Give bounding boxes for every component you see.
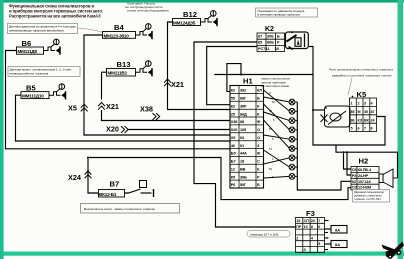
junction dot node A xyxy=(240,74,242,76)
svg-text:(провода 107 и 118): (провода 107 и 118) xyxy=(250,232,278,236)
svg-text:ВВ: ВВ xyxy=(240,166,246,171)
switch B7 terminal bar xyxy=(153,189,155,197)
connector X5 xyxy=(81,104,88,111)
F3 pin stub 1 xyxy=(325,220,329,222)
wire drop to H2 row 2 xyxy=(347,152,351,175)
buzzer H2 horn symbol xyxy=(379,169,398,188)
svg-text:Б: Б xyxy=(257,182,260,187)
connector X21 left xyxy=(98,103,105,110)
lamp output stubs xyxy=(295,102,298,176)
svg-text:30Р: 30Р xyxy=(240,103,247,108)
svg-text:ММ124Д35: ММ124Д35 xyxy=(173,20,196,25)
buzzer H2 pin table xyxy=(351,167,379,191)
lamp HL2 xyxy=(289,108,295,114)
svg-text:8: 8 xyxy=(371,127,373,131)
svg-text:30Б: 30Б xyxy=(240,174,247,179)
svg-text:4: 4 xyxy=(311,237,313,241)
wire node A to relay K5 vertical xyxy=(214,74,313,76)
svg-text:С: С xyxy=(257,159,260,164)
sensor B5 body xyxy=(21,92,49,99)
connector X21 right xyxy=(164,79,171,86)
fuse FU1 8A xyxy=(331,226,347,234)
svg-text:6: 6 xyxy=(358,127,360,131)
svg-text:ММ111В2: ММ111В2 xyxy=(108,71,128,76)
svg-text:50Г: 50Г xyxy=(240,182,247,187)
svg-text:О: О xyxy=(257,135,260,140)
wire K5 loop to buzzer feed xyxy=(336,145,398,178)
svg-text:H2: H2 xyxy=(359,157,369,166)
svg-text:ВК: ВК xyxy=(364,118,370,122)
note box: circuit 1-2-3 sensors xyxy=(8,67,80,77)
svg-text:Ж: Ж xyxy=(256,151,261,156)
svg-text:X20: X20 xyxy=(106,124,119,133)
rounded wire tag label xyxy=(247,231,290,238)
svg-text:392: 392 xyxy=(240,88,247,93)
svg-text:Выключатель контр. лампы стоян: Выключатель контр. лампы стояночного тор… xyxy=(84,207,155,211)
wire fan H1 to lamps xyxy=(264,90,290,178)
svg-text:3: 3 xyxy=(364,102,366,106)
lamp HL5 xyxy=(289,136,295,142)
svg-text:30: 30 xyxy=(364,110,368,114)
wire K2 pin 85 to fuse F3 xyxy=(194,42,296,227)
scissors crop mark xyxy=(382,242,404,259)
relay K5 pin grid xyxy=(350,98,377,132)
svg-text:схемы электрооборудования: схемы электрооборудования xyxy=(127,9,169,13)
lamp HL3 xyxy=(289,118,295,124)
svg-text:B12: B12 xyxy=(183,10,197,19)
svg-text:Б: Б xyxy=(257,96,260,101)
note box: buzzer type xyxy=(353,190,390,203)
svg-text:3: 3 xyxy=(304,248,306,252)
wire B12 through X21 to H1 row 4 xyxy=(168,22,231,110)
svg-text:66Д: 66Д xyxy=(240,111,247,116)
wire stub through X24 down to B7 xyxy=(88,158,99,194)
svg-text:СП: СП xyxy=(304,219,310,223)
lamp HL1 xyxy=(289,99,295,105)
svg-text:Х20: Х20 xyxy=(231,127,237,132)
wire F3 to fuse FU1 xyxy=(325,228,332,230)
connector X20 xyxy=(121,126,128,133)
wire jog node A to H1 row 1 xyxy=(227,64,241,92)
sensor B12 body xyxy=(173,19,201,26)
svg-text:О: О xyxy=(257,127,260,132)
svg-text:X21: X21 xyxy=(171,80,184,89)
sensor B6 contact symbol xyxy=(44,39,61,55)
sensor B4 body xyxy=(103,32,136,39)
wire stub into K5 switch box xyxy=(313,109,325,111)
wire X21 to H1 row 5 xyxy=(102,110,231,121)
leader line to K5 xyxy=(348,78,352,95)
svg-text:86: 86 xyxy=(351,118,355,122)
svg-text:B4: B4 xyxy=(114,23,124,32)
svg-text:X5: X5 xyxy=(68,104,77,113)
svg-text:Реле сигнализаторов стояночног: Реле сигнализаторов стояночного тормоза … xyxy=(329,68,393,72)
leader line from note box xyxy=(78,28,103,33)
svg-text:105: 105 xyxy=(240,127,247,132)
lamp HL4 xyxy=(289,127,295,133)
switch B7 output wire xyxy=(141,192,152,194)
wire K2 pin 86 to H1 row 3 xyxy=(207,47,257,105)
svg-text:РС731: РС731 xyxy=(258,47,270,51)
svg-text:ММ111Д10: ММ111Д10 xyxy=(22,94,44,99)
svg-text:1: 1 xyxy=(351,102,353,106)
wire B13 down to connector X21 xyxy=(102,72,107,99)
lamp HL8 xyxy=(289,164,295,170)
page border frame top xyxy=(0,0,404,3)
sensor B6 body xyxy=(17,47,44,54)
page border frame bottom xyxy=(0,252,404,256)
svg-text:2: 2 xyxy=(296,237,298,241)
svg-text:М: М xyxy=(358,110,361,114)
svg-text:10: 10 xyxy=(275,47,279,51)
svg-text:8А: 8А xyxy=(335,242,340,247)
cluster H1 pin table xyxy=(230,86,264,189)
svg-text:B7: B7 xyxy=(110,180,120,189)
switch B7 contact lever xyxy=(125,189,141,193)
svg-text:H1: H1 xyxy=(243,77,253,86)
svg-text:K2: K2 xyxy=(265,26,274,33)
relay K5 switch symbol xyxy=(321,106,351,127)
page border frame right xyxy=(398,0,404,259)
svg-text:44А: 44А xyxy=(240,151,247,156)
svg-text:24-НР: 24-НР xyxy=(358,174,369,178)
svg-text:15: 15 xyxy=(296,219,300,223)
fuse FU2 8A xyxy=(331,241,347,248)
svg-text:92: 92 xyxy=(352,180,356,184)
svg-text:5: 5 xyxy=(318,242,320,246)
title text block xyxy=(9,4,103,19)
switch B7 body xyxy=(99,190,125,198)
junction dot on K5 vertical xyxy=(312,109,314,111)
svg-text:2: 2 xyxy=(358,102,360,106)
svg-text:Распространяется на все автомо: Распространяется на все автомобили КамАЗ xyxy=(9,14,101,19)
junction dot H2 feed 2 xyxy=(346,151,348,153)
fuse block F3 grid xyxy=(296,218,325,253)
wire code labels on fan xyxy=(269,91,275,179)
relay K2 switch symbol xyxy=(286,31,309,49)
svg-text:X38: X38 xyxy=(140,105,153,114)
relay K2 pin grid xyxy=(257,33,285,52)
svg-text:пр: пр xyxy=(326,236,330,240)
svg-text:85: 85 xyxy=(258,41,262,45)
svg-text:в контурах привода тормозов: в контурах привода тормозов xyxy=(258,13,301,17)
note box: pressure indication xyxy=(256,8,318,17)
svg-text:Б: Б xyxy=(277,35,280,39)
svg-text:тормоза. тип РС-531: тормоза. тип РС-531 xyxy=(354,197,381,201)
wire K2 relay to K5 loop xyxy=(309,47,385,146)
svg-text:КЛ: КЛ xyxy=(257,88,262,93)
F3 pin stub 4 xyxy=(325,249,329,251)
svg-text:аварийного состояния тормозных: аварийного состояния тормозных систем xyxy=(332,74,391,78)
svg-text:7: 7 xyxy=(318,219,320,223)
annotation: control lamps of cluster H1 xyxy=(261,77,290,89)
junction dot at X24 tee xyxy=(87,157,89,159)
svg-text:ММ111Д8: ММ111Д8 xyxy=(18,49,38,54)
wire B4 through X5 to H1 row 7 xyxy=(84,35,230,135)
wire F3 to fuse FU2 xyxy=(325,243,332,245)
annotation above relay K5 xyxy=(329,68,393,78)
svg-text:КЗ: КЗ xyxy=(358,118,363,122)
connector X24 xyxy=(85,171,92,178)
svg-text:6: 6 xyxy=(318,225,320,229)
svg-text:ВК12-Б1: ВК12-Б1 xyxy=(99,192,117,197)
svg-text:30Е: 30Е xyxy=(267,35,274,39)
sensor B5 contact symbol xyxy=(49,84,66,100)
K5 pin dot xyxy=(352,96,354,98)
svg-text:F3: F3 xyxy=(306,209,315,218)
switch B7 actuator square xyxy=(140,181,147,188)
note box: sensor installation xyxy=(8,24,78,34)
note box: parking brake lamp switch xyxy=(81,204,180,214)
sensor B12 contact symbol xyxy=(201,11,218,27)
svg-text:66Г: 66Г xyxy=(240,96,247,101)
svg-text:7: 7 xyxy=(364,127,366,131)
svg-text:87: 87 xyxy=(258,35,262,39)
svg-text:X24: X24 xyxy=(68,173,82,182)
svg-text:87: 87 xyxy=(371,110,375,114)
svg-text:X21: X21 xyxy=(106,102,119,111)
lamp HL6 xyxy=(289,146,295,152)
svg-text:ММ123-3810: ММ123-3810 xyxy=(104,33,130,38)
wire B6 to H1 row 9 xyxy=(6,51,231,149)
wire lamp bus to H2 row 3 xyxy=(297,102,351,190)
svg-text:107.118: 107.118 xyxy=(358,180,371,184)
wire X20 to H1 row 6 xyxy=(129,129,231,131)
svg-text:66.ПБ.4: 66.ПБ.4 xyxy=(358,168,372,172)
connector X38 xyxy=(153,113,160,120)
svg-text:B13: B13 xyxy=(117,60,131,69)
sensor B13 contact symbol xyxy=(136,61,153,77)
svg-text:86Б: 86Б xyxy=(267,41,274,45)
svg-text:Х38: Х38 xyxy=(231,119,238,124)
sensor B13 body xyxy=(107,69,136,77)
svg-text:привода рабочих тормозов: привода рабочих тормозов xyxy=(10,72,49,76)
wire drop to H2 row 1 xyxy=(344,152,352,169)
junction dot H2 feed 1 xyxy=(343,151,345,153)
page border frame left xyxy=(0,0,4,259)
svg-text:со светофильтрами: со светофильтрами xyxy=(261,84,289,88)
F3 pin stub 2 xyxy=(325,232,329,234)
svg-text:5: 5 xyxy=(351,127,353,131)
svg-text:ПР: ПР xyxy=(296,225,302,229)
svg-text:85: 85 xyxy=(351,110,355,114)
svg-text:Б7: Б7 xyxy=(231,159,236,164)
svg-text:10: 10 xyxy=(304,225,308,229)
svg-text:С5: С5 xyxy=(352,168,357,172)
lamp HL9 xyxy=(289,174,295,180)
svg-text:пневмопривода тормозов автомоб: пневмопривода тормозов автомобиля xyxy=(9,29,64,33)
wire trunk B7 node to H2 row 4 xyxy=(88,158,351,200)
continuation note top-center xyxy=(125,2,169,13)
svg-text:8: 8 xyxy=(311,225,313,229)
sensor B4 contact symbol xyxy=(136,24,153,40)
svg-text:8А: 8А xyxy=(335,227,340,232)
F3 pin stub 3 xyxy=(325,237,329,239)
svg-text:20: 20 xyxy=(311,219,315,223)
wire B5 to H1 row 8 xyxy=(16,95,231,141)
svg-text:РЗ: РЗ xyxy=(352,174,357,178)
lamp HL7 xyxy=(289,155,295,161)
